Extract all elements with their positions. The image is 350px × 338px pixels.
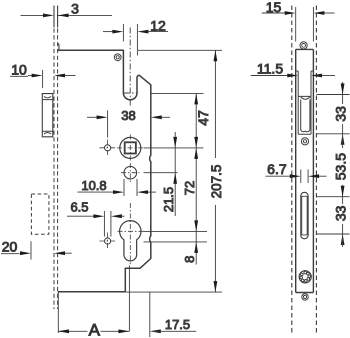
svg-text:10: 10 [11, 61, 27, 77]
extension line euro circle bottom (8 lower ref) [144, 241, 208, 243]
svg-text:3: 3 [71, 1, 79, 17]
extension line body bottom (207.5 lower ref) [126, 291, 222, 293]
dimension 33 (lower) [341, 197, 345, 247]
faceplate screw (bottom, right view) [302, 294, 308, 300]
svg-text:72: 72 [182, 181, 197, 195]
svg-text:21.5: 21.5 [161, 187, 176, 212]
latch slot centerline [124, 28, 137, 107]
faceplate screw (top, right view) [300, 42, 307, 49]
round follower hole [121, 163, 140, 183]
svg-text:6.5: 6.5 [70, 200, 88, 215]
svg-text:207.5: 207.5 [209, 165, 224, 199]
extension line euro centre [144, 230, 208, 232]
dashed clearance rectangle [31, 194, 49, 234]
extension line body left vertical (A left ref) [57, 292, 59, 333]
dimension 17.5 [150, 329, 197, 333]
faceplate edge lines (hidden, dashed) [54, 29, 58, 310]
svg-text:38: 38 [121, 108, 135, 123]
dimension 8 [194, 231, 198, 264]
svg-text:12: 12 [150, 18, 166, 34]
svg-text:53.5: 53.5 [332, 153, 348, 180]
svg-text:15: 15 [266, 0, 282, 15]
shoulder step and inner edges [296, 71, 314, 134]
dimension 33 (upper) [341, 82, 345, 145]
faceplate channel outline (right view) [296, 49, 314, 292]
svg-text:33: 33 [332, 205, 348, 221]
dimension 207.5 [214, 50, 218, 292]
euro profile cylinder hole [118, 203, 144, 266]
extension line spindle centre [144, 147, 204, 149]
door edge dashed lines [292, 6, 317, 336]
extension line euro centre vertical (A / 17.5) [128, 266, 130, 332]
dimension 10 (roller to faceplate) [10, 70, 76, 88]
svg-text:33: 33 [332, 106, 348, 122]
svg-text:17.5: 17.5 [165, 317, 190, 332]
top extension line (207.5 upper reference) [138, 49, 222, 51]
faceplate screw (top) [114, 54, 121, 61]
svg-text:8: 8 [182, 256, 197, 263]
dimension 72 [194, 148, 198, 232]
dimension 12 (latch slot width) [103, 24, 168, 56]
extension line at latch slot bottom (47 upper ref) [152, 92, 204, 94]
right view extension lines [317, 95, 350, 235]
latch bolt seen in slot [301, 97, 310, 132]
svg-text:A: A [89, 321, 101, 338]
dimension 6.5 (fixing hole dia) [67, 211, 125, 237]
screw between slots (right view) [301, 138, 308, 145]
spindle follower U1 (square hub) [117, 135, 144, 162]
dimension 3 (faceplate thickness) [21, 14, 113, 18]
latch opening (upper slot) [298, 96, 311, 134]
dimension 20 (dashed zone to faceplate) [1, 241, 72, 259]
lock body top mounting lug [57, 43, 59, 50]
svg-text:6.7: 6.7 [267, 161, 287, 177]
dimension 15 (faceplate width) [262, 7, 335, 42]
faceplate edge lines (solid top segment) [54, 6, 58, 28]
svg-text:10.8: 10.8 [81, 178, 106, 193]
fixing hole upper [100, 140, 116, 157]
lower slot with shoot bolt [301, 192, 308, 239]
svg-text:47: 47 [195, 110, 211, 126]
fixing hole lower [100, 233, 116, 250]
dimension 21.5 [173, 132, 177, 216]
roller cam on faceplate front [42, 94, 53, 137]
dimension 53.5 [341, 134, 345, 197]
dimension 10.8 (round hole dia) [77, 179, 156, 196]
dimension A [58, 329, 129, 333]
extension line round hole centre [144, 172, 178, 174]
dimension 11.5 [251, 74, 335, 78]
dimension 38 (backset) [87, 110, 170, 137]
knurled adjustment nut [299, 271, 311, 283]
svg-text:11.5: 11.5 [257, 61, 283, 77]
dimension 6.7 (bolt slot width) [265, 170, 326, 184]
dimension 47 [194, 93, 198, 147]
extension line body edge vertical (17.5 right ref) [149, 292, 151, 337]
lock body outline [58, 50, 151, 291]
svg-text:20: 20 [2, 239, 18, 255]
